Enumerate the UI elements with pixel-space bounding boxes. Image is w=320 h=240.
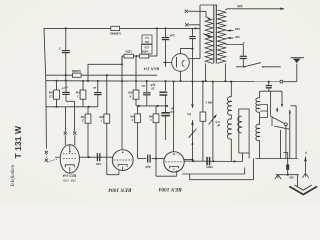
svg-text:4μF: 4μF	[150, 83, 155, 87]
svg-text:0W: 0W	[80, 115, 85, 119]
svg-text:1250: 1250	[125, 50, 132, 54]
svg-text:2μF: 2μF	[169, 33, 174, 37]
svg-text:125: 125	[141, 84, 146, 87]
svg-text:4,5MΩ: 4,5MΩ	[71, 69, 81, 73]
svg-text:P: P	[305, 150, 307, 154]
svg-text:0W 1: 0W 1	[205, 100, 212, 104]
svg-text:0W: 0W	[149, 114, 154, 118]
svg-text:1W: 1W	[75, 91, 80, 95]
svg-text:2W: 2W	[145, 40, 150, 43]
svg-text:0,2: 0,2	[145, 36, 149, 39]
svg-text:110: 110	[235, 35, 240, 39]
svg-text:125: 125	[144, 46, 149, 49]
svg-text:μF: μF	[216, 124, 220, 128]
svg-text:0W: 0W	[128, 91, 133, 95]
svg-text:(RE 134): (RE 134)	[62, 179, 75, 183]
svg-text:Telefunken: Telefunken	[10, 164, 16, 187]
svg-text:REN 1004: REN 1004	[158, 186, 183, 192]
svg-text:2,5: 2,5	[49, 94, 53, 98]
svg-text:500: 500	[289, 176, 294, 179]
svg-text:P1: P1	[187, 112, 191, 116]
svg-text:3W: 3W	[49, 91, 54, 95]
svg-text:REN 1004: REN 1004	[108, 187, 133, 193]
svg-text:125: 125	[235, 27, 240, 31]
svg-text:μF: μF	[93, 86, 97, 89]
svg-text:RES 164: RES 164	[62, 174, 76, 178]
svg-text:0,5: 0,5	[215, 120, 219, 124]
svg-text:2W: 2W	[99, 115, 104, 119]
svg-text:T 131 W: T 131 W	[13, 125, 23, 158]
svg-text:μF: μF	[61, 87, 65, 90]
svg-text:450: 450	[141, 50, 146, 54]
svg-text:0,45MΩ: 0,45MΩ	[110, 31, 121, 35]
svg-text:100: 100	[96, 162, 101, 166]
svg-text:5000: 5000	[206, 165, 213, 169]
svg-text:0W: 0W	[130, 114, 135, 118]
svg-text:25: 25	[151, 87, 155, 91]
svg-text:2μF: 2μF	[145, 165, 151, 169]
svg-text:RGN 354: RGN 354	[144, 66, 159, 71]
svg-text:220: 220	[237, 4, 243, 8]
